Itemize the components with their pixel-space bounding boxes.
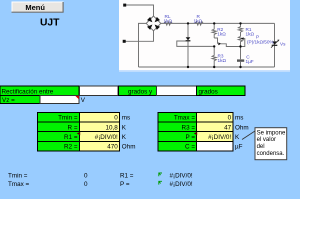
svg-text:R3 =: R3 =	[182, 124, 196, 131]
svg-text:Vs: Vs	[280, 42, 286, 47]
svg-text:0: 0	[228, 115, 232, 122]
svg-text:ms: ms	[122, 115, 130, 122]
UJT Q1 body wires	[214, 38, 217, 44]
comment box	[255, 128, 287, 160]
right loop wire	[274, 23, 276, 41]
svg-text:Tmin =: Tmin =	[58, 115, 78, 122]
resistor RL	[164, 22, 172, 25]
Menú button	[12, 2, 64, 13]
wire zener branch	[187, 23, 189, 37]
svg-text:#¡DIV/0!: #¡DIV/0!	[170, 173, 193, 180]
svg-text:P =: P =	[185, 134, 195, 141]
bottom ground rail	[139, 66, 275, 68]
bridge diode D3	[147, 25, 152, 30]
svg-text:Rectificación entre: Rectificación entre	[2, 88, 54, 95]
svg-text:1kΩ: 1kΩ	[218, 58, 227, 63]
left table value boxes	[80, 112, 120, 151]
svg-text:condensa.: condensa.	[257, 151, 285, 157]
svg-text:Tmax =: Tmax =	[8, 181, 29, 188]
zener diode DZ triangle	[186, 37, 191, 40]
bridge diode D4	[155, 25, 160, 30]
Vs diagonal arrow	[271, 40, 279, 48]
page background	[0, 0, 300, 199]
svg-text:1µF: 1µF	[246, 59, 254, 64]
svg-text:R =: R =	[68, 124, 78, 131]
red comment triangle on Vz box	[75, 96, 79, 100]
svg-text:ms: ms	[235, 115, 243, 122]
UJT emitter arrow	[218, 42, 221, 45]
zener hook wire	[177, 41, 214, 46]
svg-text:(P)/1kΩ/50%: (P)/1kΩ/50%	[247, 39, 274, 44]
svg-text:Se impone: Se impone	[257, 130, 286, 136]
svg-text:R2 =: R2 =	[64, 144, 78, 151]
terminal dot bottom	[123, 40, 126, 43]
left table green label cells	[38, 112, 80, 151]
junction dot on emitter line	[213, 45, 215, 47]
svg-text:Ohm: Ohm	[122, 144, 136, 151]
potentiometer P	[238, 36, 242, 46]
junction node emitter / pot / C	[239, 45, 241, 47]
pot wiper wire	[241, 39, 245, 47]
right table green label cells	[158, 112, 197, 151]
junction node R1 / top rail	[239, 22, 241, 24]
svg-text:0: 0	[114, 115, 118, 122]
bottom summary labels	[8, 173, 193, 188]
bridge diamond	[146, 16, 161, 31]
resistor R	[195, 22, 203, 25]
svg-text:grados y: grados y	[128, 88, 153, 95]
junction node C / ground rail	[239, 66, 241, 68]
pot wiper arrow	[241, 37, 244, 40]
svg-text:Ohm: Ohm	[235, 124, 249, 131]
right table value boxes	[197, 112, 234, 151]
schematic labels	[164, 14, 287, 64]
Vs diode bar	[272, 44, 278, 46]
comment leader line	[242, 131, 255, 140]
junction node zener / ground rail	[187, 66, 189, 68]
terminal dot top	[123, 4, 126, 7]
svg-text:el valor: el valor	[257, 137, 276, 143]
junction node R3 / ground rail	[213, 66, 215, 68]
svg-text:UJT: UJT	[40, 17, 60, 28]
resistor R1 and wire	[238, 23, 242, 36]
main top rail	[161, 22, 275, 24]
svg-text:1kΩ: 1kΩ	[217, 32, 226, 37]
svg-text:1kΩ: 1kΩ	[194, 19, 203, 24]
bridge diode D2	[155, 17, 160, 22]
soft light edge under schematic panel	[119, 70, 290, 72]
svg-text:470: 470	[107, 144, 118, 151]
svg-text:#¡DIV/0!: #¡DIV/0!	[95, 134, 118, 141]
svg-text:Vz =: Vz =	[2, 97, 15, 104]
svg-text:1kΩ: 1kΩ	[246, 32, 255, 37]
svg-text:C =: C =	[185, 144, 195, 151]
svg-text:0: 0	[84, 173, 88, 180]
svg-text:Menú: Menú	[25, 3, 45, 12]
schematic white panel	[119, 0, 290, 70]
wire top AC input	[125, 5, 154, 16]
row 2: Vz	[0, 96, 79, 104]
junction node zener / top rail	[187, 22, 189, 24]
svg-text:Tmax =: Tmax =	[174, 115, 195, 122]
zener bar	[186, 40, 191, 42]
capacitor C leads	[240, 47, 242, 60]
capacitor C plate	[237, 59, 244, 61]
svg-text:del: del	[257, 144, 265, 150]
wire bottom AC input	[124, 31, 153, 42]
svg-text:#¡DIV/0!: #¡DIV/0!	[208, 134, 231, 141]
junction node R2 / top rail	[213, 22, 215, 24]
svg-text:47: 47	[224, 124, 232, 131]
svg-text:µF: µF	[235, 144, 243, 151]
svg-text:#¡DIV/0!: #¡DIV/0!	[170, 181, 193, 188]
wire DC minus to ground rail	[139, 23, 147, 67]
svg-text:10,8: 10,8	[106, 124, 119, 131]
svg-text:0: 0	[84, 181, 88, 188]
Vs diode triangle	[272, 41, 277, 44]
svg-text:R1 =: R1 =	[120, 173, 134, 180]
svg-text:R1 =: R1 =	[64, 134, 78, 141]
comment marker R1 row	[77, 132, 80, 136]
green error marks	[159, 173, 162, 185]
svg-text:1kΩ: 1kΩ	[164, 19, 173, 24]
svg-text:Tmin =: Tmin =	[8, 173, 28, 180]
svg-text:P =: P =	[120, 181, 130, 188]
resistor R2 and wire	[212, 23, 216, 38]
bridge diode D1	[147, 17, 152, 22]
svg-text:grados: grados	[199, 88, 218, 95]
resistor R3 and wire	[212, 46, 216, 67]
comment marker P row	[194, 132, 197, 136]
row 1: Rectificación entre	[0, 86, 245, 96]
